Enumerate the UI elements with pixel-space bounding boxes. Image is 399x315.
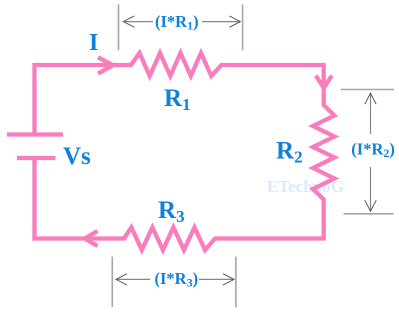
svg-text:I: I: [89, 30, 98, 56]
svg-text:Vs: Vs: [63, 143, 91, 170]
